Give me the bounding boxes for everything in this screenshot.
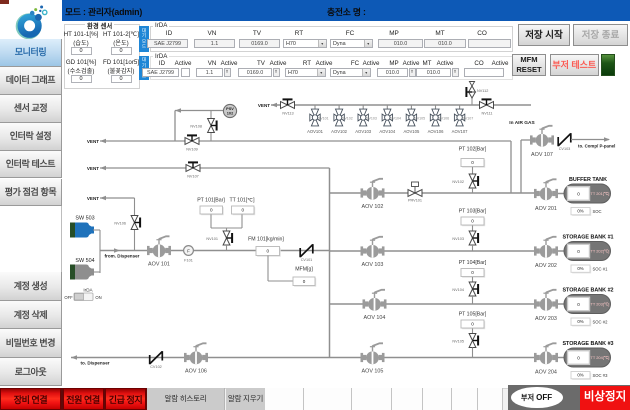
- svg-text:0: 0: [210, 208, 213, 213]
- svg-text:AOV105: AOV105: [403, 129, 420, 134]
- svg-text:BUFFER TANK: BUFFER TANK: [569, 177, 607, 183]
- wire: vent 3: [100, 197, 135, 199]
- svg-text:NV106: NV106: [114, 222, 126, 226]
- emergency stop: [580, 386, 630, 410]
- svg-text:CV103: CV103: [559, 147, 571, 151]
- wire: drop to AOV105: [410, 105, 412, 110]
- check valve CV101: [300, 244, 313, 257]
- svg-text:PT 104[Bar]: PT 104[Bar]: [459, 260, 487, 266]
- wire: from dispenser main line: [100, 250, 330, 252]
- svg-text:to. Dispenser: to. Dispenser: [80, 361, 109, 366]
- valve NV104: [469, 282, 479, 296]
- svg-text:SOC #1: SOC #1: [593, 267, 609, 272]
- svg-text:AOV102: AOV102: [331, 129, 348, 134]
- svg-text:AOV103: AOV103: [355, 129, 372, 134]
- wire: air gas branch: [520, 140, 522, 193]
- svg-text:F: F: [187, 249, 190, 254]
- wire: row 2: [330, 250, 535, 252]
- wire: drop to AOV107: [459, 105, 461, 110]
- svg-text:AOV104: AOV104: [379, 129, 396, 134]
- valve AOV 105: [361, 343, 385, 364]
- svg-text:0: 0: [266, 249, 269, 254]
- solenoid valve SV101 / AOV101: [310, 109, 320, 126]
- valve NV106: [131, 216, 141, 230]
- solenoid valve SV104 / AOV104: [382, 109, 392, 126]
- valve NV112 vent stub: [471, 98, 473, 105]
- svg-text:102: 102: [227, 111, 234, 116]
- svg-text:NV108: NV108: [190, 125, 202, 129]
- svg-text:ON: ON: [95, 295, 101, 300]
- valve NV113: [281, 98, 295, 108]
- svg-text:SV102: SV102: [342, 117, 353, 121]
- svg-text:VENT: VENT: [87, 196, 99, 201]
- svg-text:PT 102[Bar]: PT 102[Bar]: [459, 147, 487, 153]
- wire: row 3: [330, 303, 535, 305]
- svg-text:PT 103[Bar]: PT 103[Bar]: [459, 209, 487, 215]
- valve NV101: [223, 231, 233, 245]
- svg-text:PT 105[Bar]: PT 105[Bar]: [459, 312, 487, 318]
- svg-text:AOV 203: AOV 203: [535, 316, 557, 322]
- regulator PRV101: [408, 190, 422, 197]
- svg-text:SV103: SV103: [366, 117, 377, 121]
- svg-text:NV104: NV104: [452, 288, 464, 292]
- svg-text:CV102: CV102: [150, 365, 162, 369]
- svg-text:OFF: OFF: [64, 295, 73, 300]
- svg-text:NV113: NV113: [282, 112, 293, 116]
- svg-text:VENT: VENT: [87, 139, 99, 144]
- svg-text:AOV106: AOV106: [428, 129, 445, 134]
- svg-text:NV109: NV109: [186, 148, 198, 152]
- valve AOV 104: [363, 290, 387, 311]
- valve NV107: [186, 161, 200, 171]
- solenoid valve SV102 / AOV102: [334, 109, 344, 126]
- valve AOV 204: [534, 343, 558, 364]
- wire: left manifold: [329, 168, 331, 358]
- svg-text:SW 504: SW 504: [75, 258, 94, 264]
- svg-text:SV107: SV107: [463, 117, 474, 121]
- svg-text:0%: 0%: [577, 373, 583, 378]
- svg-text:AOV 201: AOV 201: [535, 206, 557, 212]
- valve AOV 106: [184, 343, 208, 364]
- svg-text:TT 201[℃]: TT 201[℃]: [591, 191, 610, 196]
- svg-text:SV106: SV106: [438, 117, 449, 121]
- svg-text:SOC: SOC: [593, 209, 602, 214]
- svg-text:NV102: NV102: [452, 180, 464, 184]
- environment sensor group: [64, 24, 140, 89]
- wire: vent header 1: [100, 140, 511, 142]
- svg-text:AOV 101: AOV 101: [148, 262, 170, 268]
- svg-text:NV107: NV107: [187, 175, 199, 179]
- svg-text:TT 203[℃]: TT 203[℃]: [591, 302, 610, 307]
- valve NV111: [480, 98, 494, 108]
- svg-text:AOV 106: AOV 106: [185, 369, 207, 375]
- svg-text:STORAGE BANK #3: STORAGE BANK #3: [562, 341, 613, 347]
- svg-text:F101: F101: [184, 259, 193, 263]
- svg-text:to. Comp/ P-panel: to. Comp/ P-panel: [578, 144, 615, 149]
- svg-text:0%: 0%: [577, 209, 583, 214]
- svg-text:0: 0: [241, 208, 244, 213]
- wire: drop to AOV102: [338, 105, 340, 110]
- svg-text:0: 0: [471, 322, 474, 327]
- valve AOV 202: [534, 237, 558, 258]
- valve AOV 201: [534, 179, 558, 200]
- wire: drop to AOV101: [314, 105, 316, 110]
- svg-text:AOV107: AOV107: [452, 129, 469, 134]
- relief valve PSV 102: [223, 104, 236, 117]
- svg-text:PSV: PSV: [226, 106, 234, 111]
- valve NV109: [185, 134, 199, 144]
- flow indicator F101: [184, 246, 194, 256]
- svg-text:SOC #2: SOC #2: [593, 320, 609, 325]
- svg-text:AOV 202: AOV 202: [535, 263, 557, 269]
- check valve CV102: [150, 351, 163, 364]
- valve NV103: [469, 231, 479, 245]
- valve NV105: [469, 334, 479, 348]
- svg-text:CV101: CV101: [301, 258, 313, 262]
- svg-text:0: 0: [471, 270, 474, 275]
- svg-text:In AIR GAS: In AIR GAS: [509, 120, 535, 126]
- svg-text:NV105: NV105: [452, 340, 464, 344]
- svg-text:AOV 102: AOV 102: [362, 204, 384, 210]
- svg-text:NV112: NV112: [477, 89, 488, 93]
- check valve CV103: [558, 133, 571, 146]
- svg-text:VENT: VENT: [258, 103, 270, 108]
- wire: drop to AOV106: [435, 105, 437, 110]
- svg-text:0: 0: [303, 279, 306, 284]
- solenoid valve SV105 / AOV105: [406, 109, 416, 126]
- solenoid valve SV106 / AOV106: [430, 109, 440, 126]
- svg-text:TT 101[℃]: TT 101[℃]: [229, 198, 255, 204]
- svg-text:IrDA: IrDA: [83, 288, 93, 293]
- svg-text:TT 202[℃]: TT 202[℃]: [591, 249, 610, 254]
- svg-text:AOV 204: AOV 204: [535, 370, 557, 376]
- svg-text:SW 503: SW 503: [75, 216, 94, 222]
- svg-text:STORAGE BANK #2: STORAGE BANK #2: [562, 288, 613, 294]
- valve AOV 107: [530, 126, 554, 147]
- svg-text:SV105: SV105: [414, 117, 425, 121]
- IrDA panel 1: [139, 26, 149, 52]
- svg-text:NV111: NV111: [481, 112, 492, 116]
- svg-text:AOV101: AOV101: [307, 129, 324, 134]
- svg-text:AOV 104: AOV 104: [364, 315, 386, 321]
- svg-text:PT 101[Bar]: PT 101[Bar]: [197, 198, 225, 204]
- solenoid valve SV107 / AOV107: [454, 109, 464, 126]
- svg-text:FM 101[kg/min]: FM 101[kg/min]: [248, 237, 284, 243]
- svg-text:SOC #3: SOC #3: [593, 373, 609, 378]
- IrDA panel 2: [139, 56, 149, 80]
- svg-text:NV103: NV103: [452, 237, 464, 241]
- valve NV102: [469, 174, 479, 188]
- valve AOV 101: [147, 236, 171, 257]
- valve AOV 102: [361, 179, 385, 200]
- svg-text:AOV 103: AOV 103: [362, 262, 384, 268]
- svg-text:0: 0: [471, 160, 474, 165]
- svg-text:0: 0: [471, 219, 474, 224]
- svg-text:STORAGE BANK #1: STORAGE BANK #1: [562, 235, 613, 241]
- svg-text:0%: 0%: [577, 319, 583, 324]
- svg-text:AOV 105: AOV 105: [362, 369, 384, 375]
- svg-text:0: 0: [577, 355, 580, 360]
- bottom button bar: [0, 388, 630, 410]
- svg-text:AOV 107: AOV 107: [531, 152, 553, 158]
- svg-text:SV104: SV104: [390, 117, 401, 121]
- svg-text:SV101: SV101: [318, 117, 329, 121]
- svg-text:NV101: NV101: [206, 237, 218, 241]
- wire: vent manifold top: [271, 104, 531, 106]
- wire: row 4 return line: [71, 357, 534, 359]
- buzzer off pill: [511, 387, 563, 409]
- svg-text:MFM[g]: MFM[g]: [295, 267, 313, 273]
- wire: drop to AOV104: [386, 105, 388, 110]
- svg-text:PRV101: PRV101: [408, 199, 422, 203]
- valve AOV 103: [361, 237, 385, 258]
- valve NV108: [210, 111, 212, 142]
- svg-text:VENT: VENT: [87, 166, 99, 171]
- wire: row 1 buffer: [330, 192, 512, 194]
- svg-text:0%: 0%: [577, 266, 583, 271]
- wire: vent header 2: [100, 167, 330, 169]
- svg-text:0: 0: [577, 302, 580, 307]
- company logo: [0, 0, 62, 39]
- svg-text:from. Dispenser: from. Dispenser: [105, 254, 140, 259]
- svg-text:0: 0: [577, 191, 580, 196]
- solenoid valve SV103 / AOV103: [358, 109, 368, 126]
- wire: PSV discharge: [175, 110, 224, 112]
- svg-text:0: 0: [577, 249, 580, 254]
- wire: drop to AOV103: [362, 105, 364, 110]
- svg-text:TT 204[℃]: TT 204[℃]: [591, 355, 610, 360]
- valve AOV 203: [534, 290, 558, 311]
